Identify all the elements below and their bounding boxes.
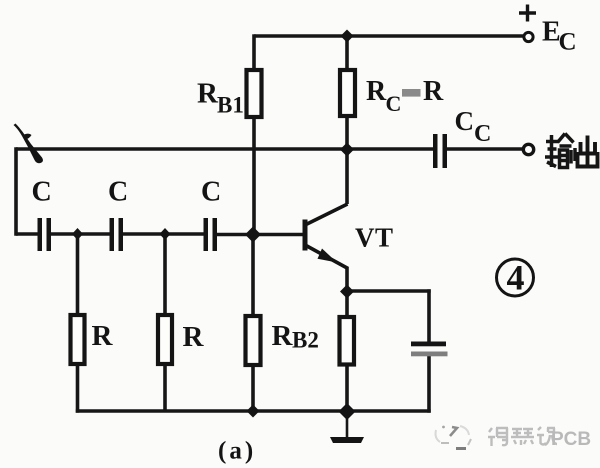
node: base / RB1-RB2 junction: [245, 227, 261, 243]
label 输出 (output) hand-drawn glyphs: [545, 134, 575, 168]
transistor VT base bar: [303, 220, 308, 251]
wire: ground stub: [346, 413, 349, 437]
wire: C1 to C2: [51, 232, 110, 236]
node: collector-output junction: [340, 143, 354, 157]
resistor RE (emitter): [340, 317, 355, 365]
capacitor C2 plates: [110, 218, 124, 251]
capacitor CE bypass top plate: [411, 342, 446, 347]
watermark icon: [436, 426, 472, 449]
wire: into C1: [16, 232, 38, 236]
svg-text:B1: B1: [217, 93, 244, 118]
resistor RB1: [247, 70, 262, 117]
svg-text:C: C: [455, 106, 475, 136]
wire: bottom ground rail: [76, 409, 431, 413]
svg-text:B2: B2: [292, 328, 319, 353]
wire: output line after Cc to terminal: [447, 147, 524, 151]
wire: RB2 column: [251, 236, 255, 316]
wire: C2 to C3: [123, 232, 204, 236]
wire: RB2 bottom to rail: [251, 365, 255, 411]
wire: RC bottom to collector junction and down to transistor: [345, 115, 349, 204]
glyph 输 right part roof: [558, 134, 566, 143]
wire: R1 tap down: [76, 234, 80, 315]
wire: emitter column down to junction: [345, 267, 349, 292]
svg-text:C: C: [474, 121, 491, 147]
wire: left feedback drop: [14, 147, 18, 235]
svg-text:C: C: [201, 177, 221, 208]
svg-text:R: R: [423, 76, 444, 107]
node: RE-rail / ground junction: [339, 403, 356, 420]
wire: emitter junction to RE: [345, 292, 349, 317]
svg-text:C: C: [386, 91, 402, 116]
svg-text:(a): (a): [218, 438, 256, 465]
wire: top supply rail: [254, 34, 524, 38]
annotation arrow (top-left strike): [14, 124, 43, 164]
transistor VT emitter arrowhead: [318, 249, 338, 263]
wire: RE bottom to rail: [345, 365, 349, 412]
wire: RB1 bottom to base line: [252, 117, 256, 234]
svg-text:PCB: PCB: [551, 429, 591, 450]
resistor R2: [158, 315, 172, 364]
node: C1-C2 / R1 tap: [72, 228, 83, 240]
terminal Ec: [524, 32, 533, 41]
plus sign for Ec: [519, 5, 536, 22]
resistor RC: [340, 70, 355, 116]
capacitor C3 plates: [204, 218, 218, 251]
svg-text:C: C: [559, 29, 577, 56]
wire: R2 tap down: [163, 234, 167, 315]
svg-text:VT: VT: [355, 223, 394, 253]
capacitor C1 plates: [38, 218, 52, 251]
resistor R1: [71, 315, 85, 364]
node: C2-C3 / R2 tap: [160, 228, 171, 240]
resistor RB2: [246, 316, 261, 365]
wire: bypass cap branch down to top plate: [427, 289, 431, 342]
svg-text:C: C: [108, 177, 128, 208]
svg-text:R: R: [197, 78, 219, 110]
capacitor CE bypass bottom plate (faded): [411, 352, 448, 357]
glyph 输 left radical: [546, 140, 558, 144]
node: rail-RC junction: [341, 30, 354, 43]
wire: RC column top (rail to RC): [345, 36, 349, 70]
svg-text:R: R: [272, 320, 294, 352]
node: RB2-rail junction: [247, 405, 260, 418]
glyph 输 right lower: [560, 150, 568, 168]
ground bar: [330, 437, 364, 443]
transistor VT collector stroke: [306, 204, 348, 225]
wire: feedback / output line: [16, 147, 433, 151]
svg-text:C: C: [32, 177, 52, 208]
wire: emitter junction to bypass cap branch: [347, 289, 431, 293]
transistor VT emitter stroke: [306, 246, 348, 269]
wire: R2 bottom to rail: [163, 364, 167, 411]
circled figure number 4: [497, 259, 534, 296]
watermark text: [488, 427, 557, 446]
node: emitter junction: [340, 285, 354, 299]
svg-text:4: 4: [507, 258, 525, 298]
wire: bypass cap bottom plate down to rail: [427, 356, 431, 413]
wire: RB1 column top (rail corner to RB1): [252, 34, 256, 70]
terminal output: [523, 144, 533, 154]
wire: R1 bottom to rail: [76, 364, 80, 413]
glyph 出: [586, 136, 590, 168]
svg-text:R: R: [92, 320, 114, 352]
wire: C3 to transistor base: [217, 233, 303, 237]
capacitor Cc plates: [433, 134, 447, 168]
svg-text:R: R: [366, 76, 387, 107]
svg-text:R: R: [183, 321, 205, 353]
